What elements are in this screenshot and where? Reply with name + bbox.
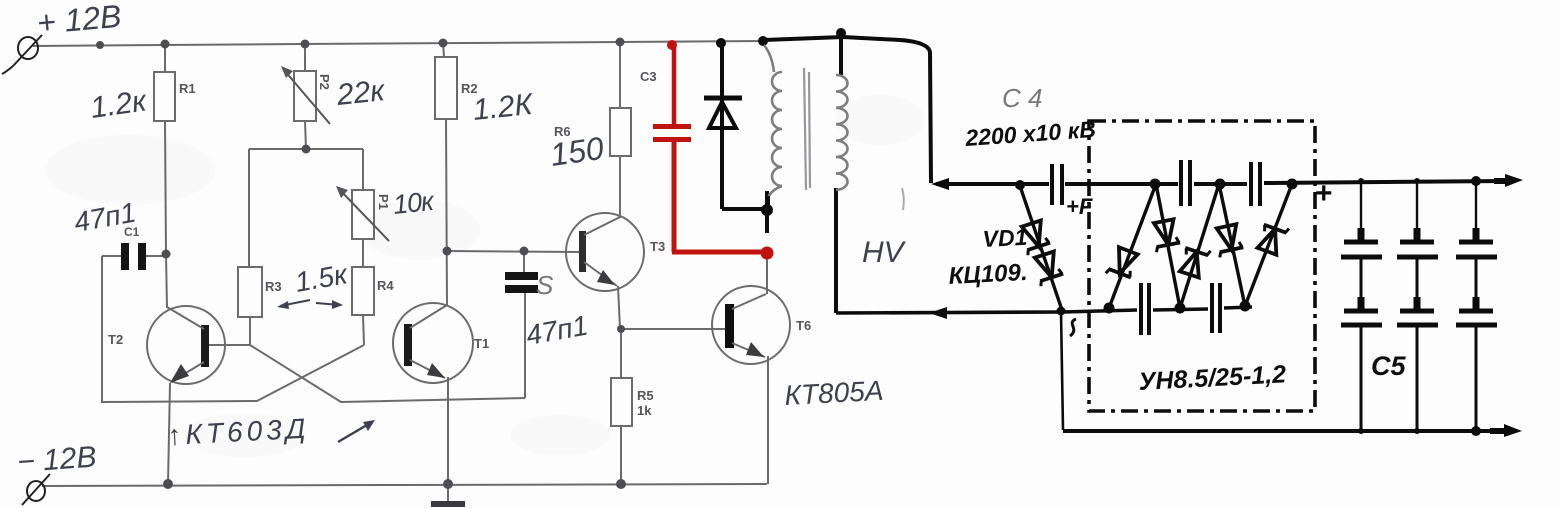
wire down to bottom rail (1061, 312, 1063, 430)
svg-text:VD1: VD1 (982, 224, 1028, 252)
trimmer P2 arrow (284, 70, 330, 124)
multiplier diode diagonals (1020, 184, 1292, 313)
capacitor C4 plates (1050, 164, 1054, 205)
ground stub (447, 484, 449, 502)
resistor R4 (352, 267, 374, 315)
capacitor C2 plates (505, 272, 538, 280)
svg-text:S: S (536, 270, 554, 300)
diode glyph on d4 (1214, 224, 1244, 258)
svg-text:150: 150 (548, 130, 606, 173)
wire T2 collector (166, 254, 167, 308)
arrow left upper rail (931, 178, 949, 190)
T3 collector line (584, 217, 620, 235)
wire cross coupling A (250, 345, 525, 402)
wire T1 collector to T3 base (447, 251, 580, 252)
resistor R6 (619, 42, 621, 108)
multiplier upper rail (936, 160, 1505, 206)
transistor T6 circle (712, 286, 790, 364)
svg-text:R5: R5 (637, 388, 654, 403)
transformer core (804, 68, 806, 190)
wire primary bottom to node (766, 196, 770, 210)
handwritten arrows 1.5k (280, 300, 340, 306)
T6 base bar (725, 304, 734, 348)
node on +12V rail (96, 41, 104, 49)
svg-text:С 4: С 4 (1002, 83, 1042, 113)
T3 base bar (579, 231, 586, 272)
node dots C5 (1471, 176, 1481, 186)
wire diode to node (722, 207, 766, 211)
svg-text:1k: 1k (637, 403, 652, 418)
C5 column 3 (1475, 181, 1477, 240)
svg-text:HV: HV (862, 236, 907, 269)
multiplier lower rail ~ (836, 283, 1252, 430)
pencil mark smudge (902, 188, 904, 210)
wire secondary top lead (839, 34, 843, 75)
wire bottom rail -12V (42, 484, 767, 486)
transistor T3 circle (566, 213, 644, 291)
T1 collector line (410, 305, 447, 328)
T6 emitter line (732, 343, 765, 357)
diode diagonal d4 (1219, 184, 1245, 306)
transformer T secondary coil (836, 75, 848, 190)
multiplier dashed box (1089, 121, 1315, 411)
svg-text:1.2К: 1.2К (471, 88, 536, 127)
terminal +12V (2, 35, 42, 74)
svg-text:+F: +F (1066, 194, 1093, 219)
wire C2 bottom lead (524, 293, 526, 398)
wire T6 base (621, 328, 725, 330)
diode glyph on d3 (1178, 243, 1211, 278)
diode diagonal d1 (1109, 184, 1156, 308)
label ~ input rotated (1070, 319, 1076, 336)
transistor T2 circle (147, 306, 225, 384)
T3 emitter line (584, 262, 617, 286)
wire T2 base (209, 344, 250, 346)
C5 column 1 (1360, 181, 1362, 240)
T3 emitter arrow (597, 270, 615, 285)
arrow right bottom rail (1504, 424, 1522, 437)
svg-text:R1: R1 (179, 81, 196, 96)
wire C2 top lead (523, 251, 525, 272)
trimmer P1 arrow (339, 189, 389, 241)
transistor bars and arrows (167, 217, 766, 383)
svg-text:P1: P1 (376, 194, 391, 210)
wire T1 emitter down (447, 377, 449, 484)
diode diagonal d5 (1245, 184, 1292, 306)
svg-text:С5: С5 (1371, 351, 1406, 381)
wire T2 emitter down (168, 383, 170, 484)
node C1/R1/T2 (162, 250, 171, 259)
nodes bottom rail (163, 479, 173, 489)
resistor R2 (443, 43, 444, 57)
svg-text:22к: 22к (334, 74, 388, 112)
T2 base bar (201, 325, 209, 367)
T6 emitter arrow (746, 342, 764, 357)
T1 emitter arrow (427, 363, 445, 378)
diode diagonal d3 (1180, 184, 1219, 308)
diode VD (flyback damper) (704, 38, 773, 233)
node T1 collector (443, 247, 452, 256)
svg-text:C3: C3 (640, 69, 657, 84)
capacitor plates mult bottom 2 (1210, 283, 1214, 333)
svg-text:P2: P2 (317, 74, 332, 90)
svg-text:T6: T6 (796, 318, 811, 333)
wire top rail +12V (33, 41, 766, 46)
svg-text:T2: T2 (108, 332, 123, 347)
diode glyphs VD1 (1019, 220, 1052, 255)
svg-text:R4: R4 (377, 278, 394, 293)
multiplier node dots (1015, 179, 1298, 316)
black bold labels right (948, 116, 1407, 396)
transformer T primary coil (764, 45, 848, 198)
wire T6 collector (766, 254, 768, 294)
resistor R5 (620, 329, 622, 378)
svg-text:R3: R3 (265, 279, 282, 294)
C5 column 2 (1416, 181, 1418, 240)
bottom output rail (1063, 429, 1505, 433)
node P2 bottom (302, 145, 311, 154)
G1: left gray schematic (33, 41, 790, 502)
node T3 emitter R5 (617, 325, 625, 333)
svg-text:− 12В: − 12В (16, 441, 97, 479)
junction dots gray (96, 38, 626, 490)
svg-text:+: + (1315, 177, 1333, 210)
capacitor C3 red (653, 40, 774, 260)
arrow right upper rail output + (1505, 174, 1523, 187)
T6 collector line (732, 294, 766, 309)
T2 collector line (167, 307, 204, 329)
wire C1 to T1 base (102, 256, 364, 402)
svg-text:КТ805А: КТ805А (784, 375, 884, 411)
capacitor plates mult top 2 (1249, 162, 1253, 206)
diode diagonal d2 (1156, 184, 1180, 308)
capacitor plates mult top 1 (1179, 160, 1183, 206)
terminal -12V (22, 474, 50, 505)
T2 emitter line (171, 362, 204, 382)
resistor R1 (164, 45, 166, 72)
node C2 top (520, 247, 529, 256)
capacitors C5 bank (1341, 181, 1497, 431)
transistor T1 circle (393, 303, 473, 383)
handwritten arrow near KT603D (338, 422, 372, 442)
diode VD1 diagonal (1020, 186, 1063, 313)
wire T3 emitter down (618, 286, 620, 329)
capacitor plates mult bottom 1 (1139, 283, 1143, 335)
svg-text:10к: 10к (391, 186, 436, 220)
svg-text:T1: T1 (474, 336, 489, 351)
wire T6 emitter down (767, 356, 769, 484)
capacitor C1 plates (121, 243, 129, 270)
capacitor C1 leads (146, 255, 166, 257)
diode glyph on d5 (1256, 220, 1289, 256)
svg-text:КЦ109.: КЦ109. (948, 259, 1028, 290)
trimmer P1 (352, 190, 374, 239)
wire secondary bottom lead (834, 188, 838, 313)
wire top black to multiplier (758, 28, 931, 313)
diode glyph on d2 (1151, 219, 1181, 252)
wire P2 bottom bus (249, 148, 363, 150)
handwritten labels left (16, 0, 1042, 479)
T1 emitter line (410, 360, 445, 378)
T1 base bar (404, 324, 412, 366)
ground symbol (431, 501, 465, 507)
arrow left lower rail (929, 307, 947, 319)
trimmer P2 (304, 44, 306, 71)
diode glyph on d1 (1106, 246, 1140, 282)
T2 emitter arrow (170, 364, 189, 383)
resistor R3 (238, 267, 262, 317)
svg-text:T3: T3 (650, 239, 665, 254)
printed labels (108, 69, 811, 418)
